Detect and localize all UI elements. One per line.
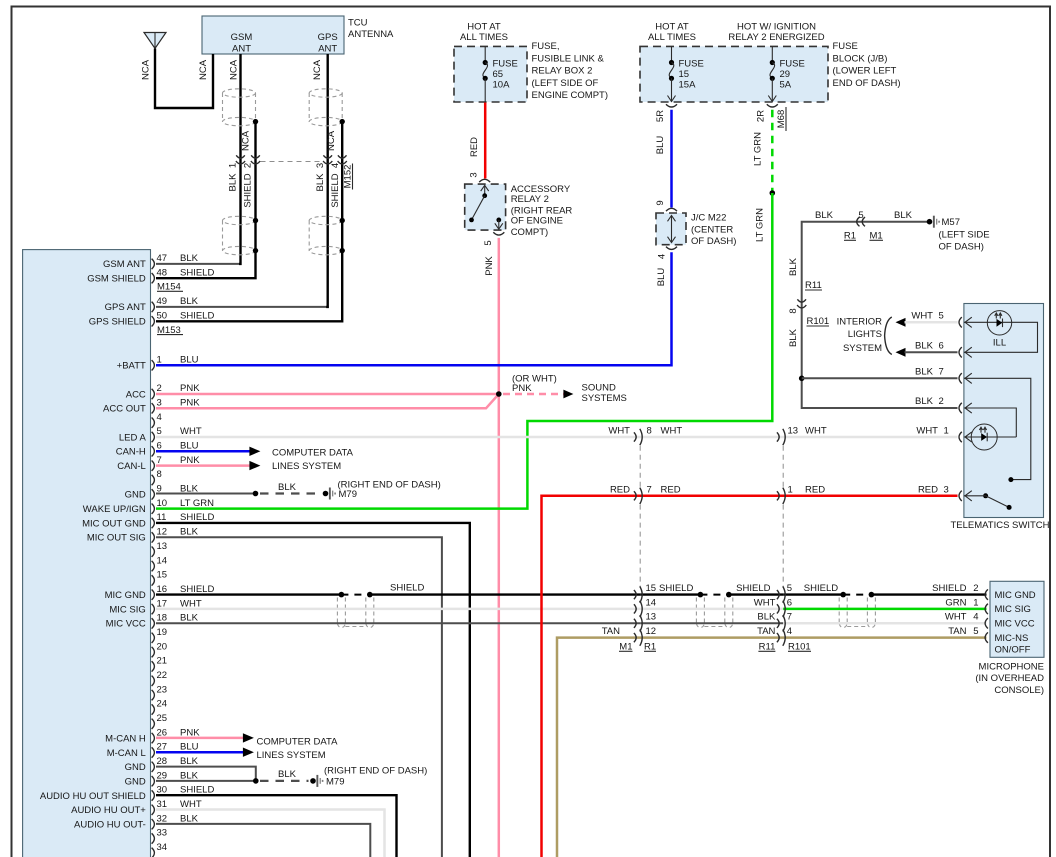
svg-text:BLU: BLU [656,268,667,287]
microphone pin 1 terminal [985,604,988,614]
svg-text:OF DASH): OF DASH) [691,236,736,247]
svg-text:MICROPHONE: MICROPHONE [979,661,1044,672]
left box pin 49 terminal [152,302,155,312]
connector M1/R1 terminals (WHT/GRN row) [634,604,636,613]
svg-text:ANT: ANT [232,44,251,55]
svg-text:SHIELD: SHIELD [180,311,214,322]
svg-text:5: 5 [157,426,162,437]
svg-text:13: 13 [646,612,657,623]
accessory relay 2 box [465,184,506,230]
svg-text:BLK: BLK [788,257,799,276]
shield tube 3a [838,598,840,624]
connector R11/R101 terminals (RED row) [777,491,779,500]
wire TAN riser to microphone pin 5 [557,638,987,857]
svg-text:BLK: BLK [180,253,199,264]
wire SHIELD cont. to M1 pin 15 [370,593,640,595]
TCU antenna box [202,16,344,54]
switch pin 5 terminal [959,317,962,327]
wire WHT between columns (row 17) [640,608,783,611]
connector M152 GSM main terminals [236,155,245,158]
svg-text:WHT: WHT [180,426,202,437]
svg-text:2: 2 [939,396,944,407]
wire BLK between columns (row 18) [640,622,783,624]
left box pin 34 terminal [152,848,155,857]
svg-text:SHIELD: SHIELD [390,583,424,594]
switch pin 1 terminal [959,432,962,442]
svg-text:MIC-NS: MIC-NS [995,633,1029,644]
left box pin 30 terminal [152,790,155,800]
connector M152 GPS drain terminals [338,155,347,158]
svg-text:29: 29 [780,69,791,80]
svg-text:LT GRN: LT GRN [180,498,214,509]
svg-text:WHT: WHT [945,612,967,623]
svg-text:(LOWER LEFT: (LOWER LEFT [833,66,897,77]
svg-text:M79: M79 [326,776,344,787]
svg-text:(LEFT SIDE OF: (LEFT SIDE OF [532,78,599,89]
wire SHIELD AUDIO HU OUT SHIELD (pin 30) [156,795,397,857]
svg-text:14: 14 [157,555,168,566]
arrow CAN-H [249,447,260,456]
svg-text:ANT: ANT [318,44,337,55]
left box pin 9 terminal [152,489,155,499]
svg-text:MIC VCC: MIC VCC [995,619,1035,630]
svg-text:49: 49 [157,296,168,307]
shield tube 1a [336,598,338,624]
wire BLK MIC VCC (pin 18) [156,622,640,624]
svg-text:AUDIO HU OUT+: AUDIO HU OUT+ [71,805,146,816]
wire WHT R101 to microphone pin 4 [783,622,986,625]
junction dot ACC [496,391,502,397]
switch pin 6 terminal [959,347,962,357]
wire BLU CAN-H (pin 6) [156,450,250,453]
svg-text:CAN-L: CAN-L [117,461,146,472]
connector R11/R101 terminals (TAN row) [777,633,779,642]
svg-text:1: 1 [944,426,949,437]
switch pin 7 terminal [959,373,962,383]
left box pin 29 terminal [152,776,155,786]
svg-text:R101: R101 [807,316,830,327]
svg-text:FUSE: FUSE [780,59,805,70]
svg-text:ILL: ILL [993,338,1006,349]
svg-text:2R: 2R [756,110,767,122]
junction dot GPS drain top [340,119,345,124]
wire PNK dashed to sound systems [503,393,564,396]
svg-text:WHT: WHT [180,598,202,609]
svg-text:GSM: GSM [231,32,253,43]
svg-text:MIC SIG: MIC SIG [109,604,145,615]
svg-text:BLU: BLU [655,136,666,155]
J/C M22 pin 4 terminal [666,247,677,250]
svg-text:1: 1 [157,355,162,366]
connector R11/R101 terminals (vertical BLK) [797,299,806,302]
svg-text:BLK: BLK [180,813,199,824]
svg-text:5: 5 [787,583,792,594]
svg-text:SYSTEMS: SYSTEMS [582,393,627,404]
left box pin 5 terminal [152,432,155,442]
switch internal ILL lamp loop [964,321,1011,323]
svg-text:(IN OVERHEAD: (IN OVERHEAD [975,673,1044,684]
svg-text:BLK: BLK [815,210,834,221]
svg-text:RELAY 2 ENERGIZED: RELAY 2 ENERGIZED [728,32,824,43]
junction dot shield tube 2a [698,592,704,598]
svg-text:18: 18 [157,613,168,624]
svg-text:(RIGHT END OF DASH): (RIGHT END OF DASH) [324,766,427,777]
connector R11/R101 terminals (WHT row) [777,432,779,441]
left box pin 13 terminal [152,547,155,557]
svg-text:SHIELD: SHIELD [180,512,214,523]
shield tube 1b [365,598,367,624]
svg-text:23: 23 [157,684,168,695]
left box pin 47 terminal [152,259,155,269]
svg-text:48: 48 [157,267,168,278]
junction dot shield tube 1b [367,592,373,598]
wire GSM ANT main (NCA/BLK) [156,263,242,265]
left box pin 10 terminal [152,504,155,514]
svg-text:RED: RED [661,484,681,495]
svg-text:2: 2 [973,583,978,594]
svg-text:10A: 10A [493,80,511,91]
svg-text:GRN: GRN [945,597,966,608]
wire PNK ACC OUT (pin 3) [156,394,499,408]
telematics switch box [964,304,1044,518]
svg-text:21: 21 [157,656,168,667]
GPS shield cylinder lower [309,216,342,224]
svg-text:M-CAN L: M-CAN L [107,748,146,759]
arrow to interior lights (WHT) [896,318,906,327]
svg-text:FUSIBLE LINK &: FUSIBLE LINK & [532,53,605,64]
svg-text:COMPUTER DATA: COMPUTER DATA [272,447,354,458]
wire SHIELD MIC OUT GND (pin 11) [156,523,470,857]
svg-text:BLK: BLK [894,210,913,221]
wire GND 9 dashed to M79 [260,492,321,494]
svg-text:1: 1 [228,163,239,168]
svg-text:BLU: BLU [180,441,199,452]
svg-text:ALL TIMES: ALL TIMES [460,32,508,43]
svg-text:7: 7 [787,612,792,623]
ground M79 (lower) [310,778,316,784]
wire BLK to switch pin 7 [802,377,958,379]
svg-text:M57: M57 [942,217,960,228]
svg-text:3: 3 [944,484,949,495]
svg-text:5: 5 [939,311,944,322]
svg-text:9: 9 [655,200,666,205]
svg-text:BLK: BLK [788,328,799,347]
svg-text:BLK: BLK [915,396,934,407]
svg-text:SHIELD: SHIELD [659,583,693,594]
left box pin 25 terminal [152,719,155,729]
wire BLK GND (pin 9) [156,493,256,495]
antenna symbol [144,33,166,49]
left box pin 11 terminal [152,518,155,528]
connector M1/R1 terminals (TAN row) [634,633,636,642]
connector M1/R1 terminals (WHT row) [634,432,636,441]
svg-text:WHT: WHT [754,597,776,608]
svg-text:CONSOLE): CONSOLE) [994,685,1044,696]
svg-text:7: 7 [157,455,162,466]
wire BLU M22 to +BATT pin 1 [156,252,672,365]
svg-text:PNK: PNK [180,398,200,409]
left box pin 33 terminal [152,833,155,843]
svg-text:11: 11 [157,512,167,523]
svg-text:33: 33 [157,828,168,839]
svg-text:GPS SHIELD: GPS SHIELD [89,317,146,328]
left box pin 12 terminal [152,532,155,542]
svg-text:GSM ANT: GSM ANT [103,259,146,270]
svg-text:CAN-H: CAN-H [116,447,146,458]
left box pin 8 terminal [152,475,155,485]
GSM shield cylinder lower [223,216,256,224]
svg-text:SOUND: SOUND [582,382,616,393]
svg-text:RED: RED [918,484,938,495]
LED backlight (pin1/2) [971,424,997,450]
fuse F65 element [484,46,486,62]
wire PNK M-CAN H (pin 26) [156,737,244,740]
svg-text:34: 34 [157,842,168,853]
wire WHT MIC SIG (pin 17) [156,608,640,611]
junction dot LT GRN [770,190,776,196]
wire WHT AUDIO HU OUT+ (pin 31) [156,810,385,857]
svg-text:OF DASH): OF DASH) [939,242,984,253]
svg-text:8: 8 [788,308,799,313]
microphone box [990,581,1044,657]
connector M152 GSM drain terminals [251,155,260,158]
svg-text:AUDIO HU OUT SHIELD: AUDIO HU OUT SHIELD [40,791,146,802]
svg-text:WHT: WHT [911,311,933,322]
left box pin 27 terminal [152,747,155,757]
svg-text:13: 13 [788,426,799,437]
wire GND 29 dashed to M79 [260,780,309,782]
left box pin 15 terminal [152,575,155,585]
svg-text:GSM SHIELD: GSM SHIELD [87,274,146,285]
left box pin 16 terminal [152,590,155,600]
svg-text:HOT AT: HOT AT [655,22,689,33]
svg-text:MIC OUT SIG: MIC OUT SIG [87,533,146,544]
svg-text:5: 5 [483,240,494,245]
left box pin 3 terminal [152,403,155,413]
connector column M1/R1 dashed line [639,446,641,488]
junction dot GND 9 [253,491,259,497]
left box pin 23 terminal [152,690,155,700]
shield tube link 1 [345,626,365,628]
svg-text:4: 4 [973,612,978,623]
svg-text:5: 5 [973,626,978,637]
wire PNK relay to bottom of page [498,238,501,857]
microphone pin 5 terminal [985,632,988,642]
J/C M22 pin 9 terminal [666,208,677,211]
connector R1/M1 terminals (M57 branch) [857,217,860,226]
svg-text:WHT: WHT [805,426,827,437]
svg-text:1: 1 [973,597,978,608]
left box pin 18 terminal [152,618,155,628]
svg-text:ACC OUT: ACC OUT [103,404,146,415]
relay pin 3 terminal [479,179,490,182]
svg-text:NCA: NCA [229,59,240,80]
svg-text:2: 2 [242,163,253,168]
svg-text:BLK: BLK [278,769,297,780]
svg-text:MIC GND: MIC GND [995,590,1036,601]
svg-text:M-CAN H: M-CAN H [105,733,146,744]
svg-text:WHT: WHT [916,426,938,437]
fuse box: FUSE, FUSIBLE LINK & RELAY BOX 2 [454,46,527,102]
svg-text:COMPT): COMPT) [511,227,548,238]
switch fixed contact dot [1008,477,1013,482]
svg-text:RELAY 2: RELAY 2 [511,194,549,205]
fuse box: FUSE BLOCK (J/B) [640,46,828,102]
shield tube link 2 [704,626,724,628]
svg-text:12: 12 [157,527,168,538]
svg-text:4: 4 [157,412,162,423]
svg-text:22: 22 [157,670,168,681]
svg-text:RED: RED [805,484,825,495]
junction dot shield tube 1a [339,592,345,598]
ground M79 (upper) [323,491,329,497]
junction dot shield tube 3a [840,592,846,598]
svg-text:BLK: BLK [228,173,239,192]
wire GPS shield drain [156,122,342,322]
wire GPS ANT main (NCA/BLK) [156,306,329,308]
svg-text:FUSE: FUSE [679,59,704,70]
wire PNK ACC (pin 2) [156,393,499,396]
svg-text:7: 7 [647,484,652,495]
connector M152 dashed link [261,161,323,163]
svg-text:ACC: ACC [126,389,146,400]
svg-text:RED: RED [469,137,480,157]
fuse F29 output terminal [767,104,778,107]
left box pin 21 terminal [152,661,155,671]
svg-text:SHIELD: SHIELD [242,173,253,207]
svg-text:MIC VCC: MIC VCC [106,619,146,630]
left box pin 4 terminal [152,418,155,428]
svg-text:FUSE: FUSE [493,59,518,70]
svg-text:SHIELD: SHIELD [932,583,966,594]
svg-text:LT GRN: LT GRN [753,132,764,166]
wire BLK switch pin 6 [905,351,958,353]
svg-text:NCA: NCA [312,59,323,80]
svg-text:BLK: BLK [180,613,199,624]
left box pin 32 terminal [152,819,155,829]
svg-text:5A: 5A [780,80,792,91]
svg-text:HOT W/ IGNITION: HOT W/ IGNITION [737,22,816,33]
svg-text:15: 15 [646,583,657,594]
svg-text:FUSE: FUSE [833,41,858,52]
svg-text:6: 6 [939,341,944,352]
svg-text:SYSTEM: SYSTEM [843,343,882,354]
junction dot GSM drain cyl2 bottom [253,248,258,253]
connector M1/R1 terminals (SHIELD row) [634,590,636,599]
left box pin 19 terminal [152,633,155,643]
svg-text:J/C M22: J/C M22 [691,213,726,224]
switch pin 2 terminal [959,403,962,413]
svg-text:WHT: WHT [608,426,630,437]
connector column R11/R101 dashed line [782,446,784,488]
svg-text:MIC OUT GND: MIC OUT GND [82,518,146,529]
svg-text:BLK: BLK [180,527,199,538]
svg-text:RED: RED [610,484,630,495]
wire RED fuse65 to relay [484,103,487,179]
svg-text:20: 20 [157,641,168,652]
svg-text:ON/OFF: ON/OFF [995,645,1031,656]
svg-text:28: 28 [157,756,168,767]
svg-text:NCA: NCA [326,130,337,151]
wire BLK GND (pin 28) [156,767,256,781]
arrow to interior lights (BLK) [896,348,906,357]
svg-text:BLK: BLK [757,612,776,623]
svg-text:14: 14 [646,597,657,608]
svg-text:(CENTER: (CENTER [691,224,733,235]
junction dot shield tube 3b [869,592,875,598]
svg-text:OF ENGINE: OF ENGINE [511,216,563,227]
switch pin 3 terminal [959,491,962,501]
connector M152 GPS main terminals [323,155,332,158]
svg-text:PNK: PNK [512,383,532,394]
svg-text:SHIELD: SHIELD [180,584,214,595]
svg-text:29: 29 [157,770,168,781]
shield dashed segment 1 [341,594,369,596]
wire RED riser to switch pin 3 [542,496,958,857]
svg-text:M79: M79 [339,489,357,500]
svg-text:6: 6 [787,597,792,608]
M22 pass-through arrows [671,216,673,243]
svg-text:FUSE,: FUSE, [532,41,560,52]
svg-text:HOT AT: HOT AT [467,22,501,33]
left box pin 6 terminal [152,446,155,456]
svg-text:BLK: BLK [315,173,326,192]
svg-text:GND: GND [125,490,146,501]
left box pin 14 terminal [152,561,155,571]
wire WHT LED A (pin 5) to switch pin 1 [156,436,958,439]
svg-text:4: 4 [657,254,668,259]
svg-text:25: 25 [157,713,168,724]
left box pin 2 terminal [152,389,155,399]
shield tube link 3 [847,626,867,628]
svg-text:1: 1 [788,484,793,495]
wire GRN R101 to microphone pin 1 [783,608,986,611]
wire PNK CAN-L (pin 7) [156,464,250,467]
left box pin 7 terminal [152,461,155,471]
wire BLU M-CAN L (pin 27) [156,751,244,754]
shield tube 2a [695,598,697,624]
svg-text:TCU: TCU [348,18,368,29]
svg-text:SHIELD: SHIELD [736,583,770,594]
svg-text:8: 8 [647,426,652,437]
wire antenna NCA [155,49,213,109]
connector R11/R101 terminals (WHT/GRN row) [777,604,779,613]
svg-text:BLK: BLK [180,296,199,307]
svg-text:BLU: BLU [180,355,199,366]
svg-text:GND: GND [125,777,146,788]
svg-text:2: 2 [157,383,162,394]
wire SHIELD MIC GND (pin 16) [156,593,341,595]
svg-text:6: 6 [157,441,162,452]
left box pin 20 terminal [152,647,155,657]
GPS shield cylinder upper [309,89,342,97]
svg-text:SHIELD: SHIELD [804,583,838,594]
svg-text:LINES SYSTEM: LINES SYSTEM [272,461,341,472]
svg-text:AUDIO HU OUT-: AUDIO HU OUT- [74,820,146,831]
svg-text:M68: M68 [776,110,787,128]
svg-text:8: 8 [157,469,162,480]
junction dot BLK pin7 branch [799,376,805,382]
svg-text:47: 47 [157,253,168,264]
fuse F15 output terminal [666,104,677,107]
svg-text:BLK: BLK [915,367,934,378]
arrow to sound systems [563,390,573,399]
switch blade and contacts [983,493,988,498]
switch internal pin7 line [964,378,1031,479]
wire WHT switch pin 5 [905,321,958,324]
left box pin 1 terminal [152,360,155,370]
svg-text:NCA: NCA [198,59,209,80]
